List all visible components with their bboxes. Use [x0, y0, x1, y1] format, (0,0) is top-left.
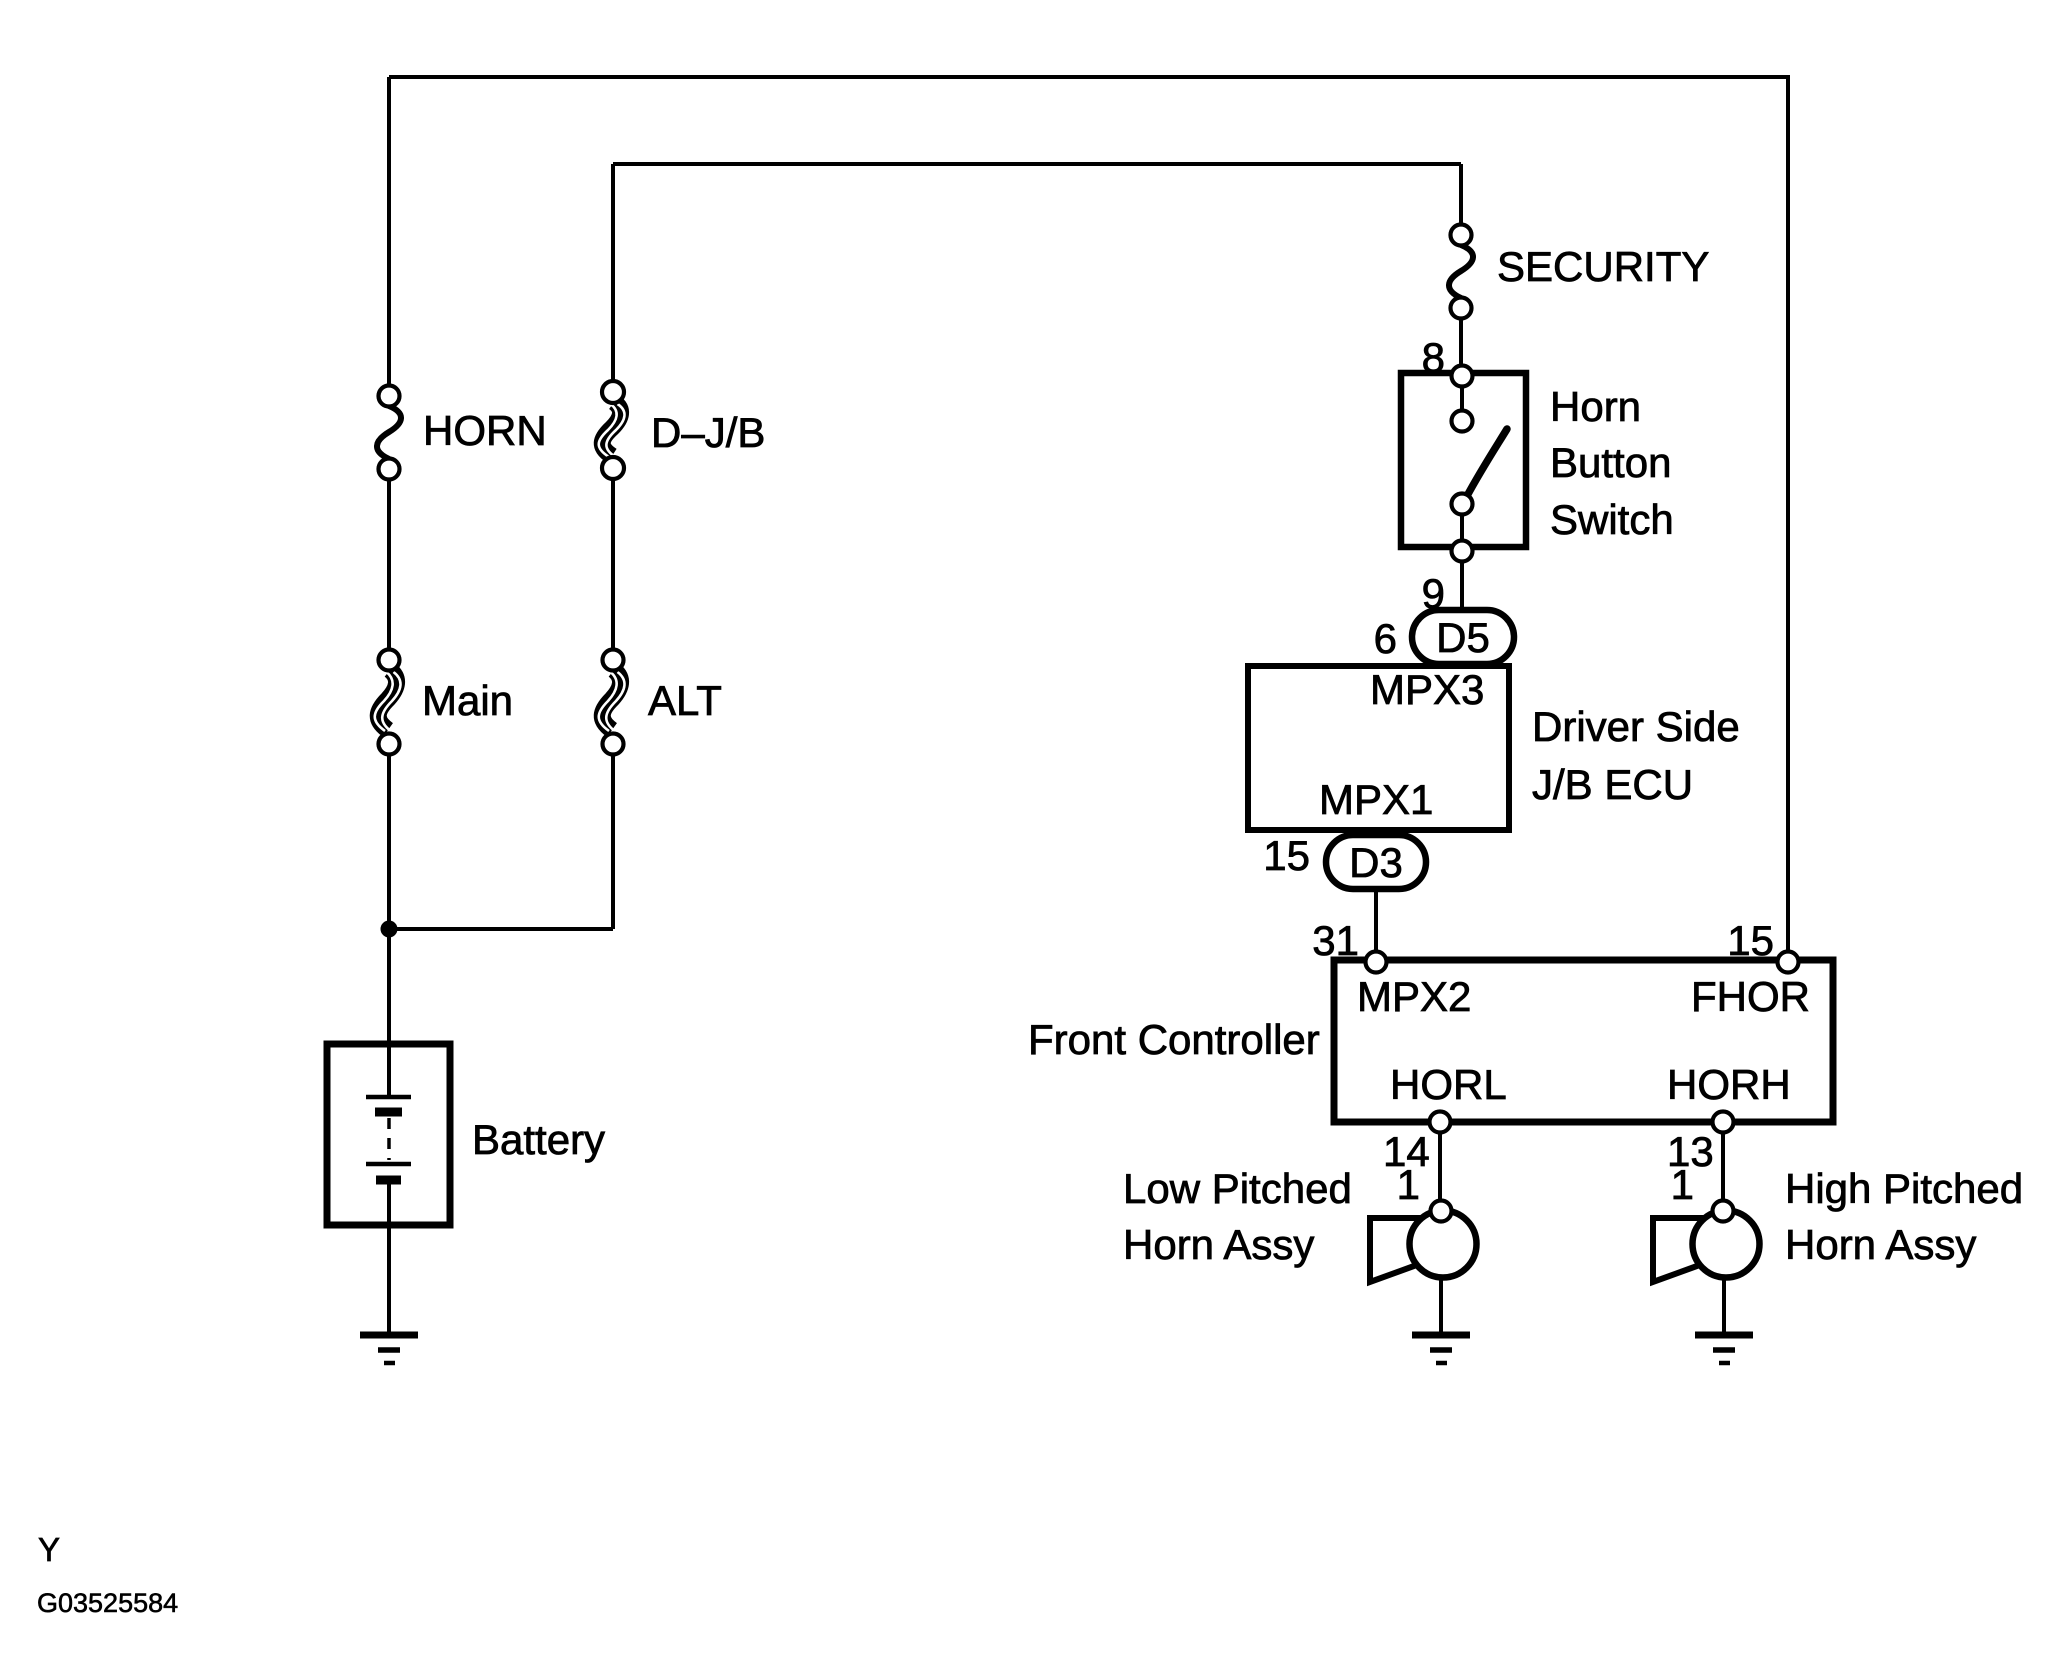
svg-text:1: 1 — [1671, 1161, 1694, 1208]
svg-text:Horn Assy: Horn Assy — [1123, 1221, 1314, 1268]
svg-text:Main: Main — [422, 677, 513, 724]
svg-text:1: 1 — [1397, 1161, 1420, 1208]
svg-text:Front Controller: Front Controller — [1028, 1016, 1320, 1063]
svg-text:G03525584: G03525584 — [37, 1588, 178, 1618]
svg-text:D5: D5 — [1436, 614, 1490, 661]
svg-text:31: 31 — [1312, 917, 1359, 964]
svg-text:J/B ECU: J/B ECU — [1532, 761, 1693, 808]
svg-text:Button: Button — [1550, 439, 1671, 486]
svg-text:Switch: Switch — [1550, 496, 1674, 543]
svg-text:8: 8 — [1422, 334, 1445, 381]
svg-text:FHOR: FHOR — [1691, 973, 1810, 1020]
svg-text:D3: D3 — [1349, 839, 1403, 886]
svg-text:Y: Y — [38, 1531, 60, 1568]
svg-text:MPX3: MPX3 — [1370, 666, 1484, 713]
svg-text:6: 6 — [1374, 615, 1397, 662]
svg-text:SECURITY: SECURITY — [1497, 243, 1709, 290]
svg-text:15: 15 — [1727, 917, 1774, 964]
svg-text:Horn Assy: Horn Assy — [1785, 1221, 1976, 1268]
svg-text:Low Pitched: Low Pitched — [1123, 1165, 1352, 1212]
svg-text:Battery: Battery — [472, 1116, 605, 1163]
svg-text:MPX1: MPX1 — [1319, 776, 1433, 823]
svg-text:15: 15 — [1263, 832, 1310, 879]
svg-text:Driver Side: Driver Side — [1532, 703, 1740, 750]
svg-text:HORH: HORH — [1667, 1061, 1791, 1108]
svg-text:MPX2: MPX2 — [1357, 973, 1471, 1020]
svg-text:High Pitched: High Pitched — [1785, 1165, 2023, 1212]
svg-text:D–J/B: D–J/B — [651, 409, 765, 456]
svg-text:ALT: ALT — [648, 677, 722, 724]
svg-text:9: 9 — [1422, 570, 1445, 617]
svg-text:HORL: HORL — [1390, 1061, 1507, 1108]
svg-text:HORN: HORN — [423, 407, 547, 454]
svg-text:Horn: Horn — [1550, 383, 1641, 430]
